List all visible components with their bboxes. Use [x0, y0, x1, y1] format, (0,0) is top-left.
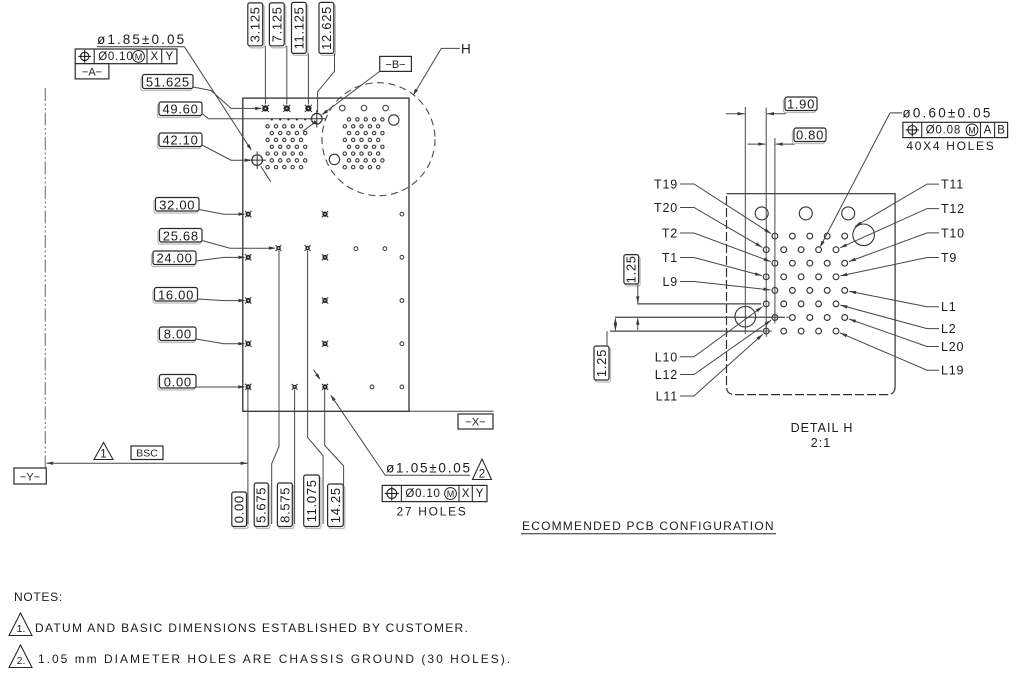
chassis ground hole left column y=300.5: [245, 297, 251, 303]
svg-text:27 HOLES: 27 HOLES: [397, 505, 468, 519]
detail hole grid (40 holes): [763, 233, 847, 334]
svg-text:Y: Y: [165, 51, 173, 63]
leader 8.575: [294, 390, 296, 525]
leader ø0.60: [821, 113, 890, 246]
detail large hole right: [853, 224, 875, 246]
right connector hole grid (40 small holes): [343, 118, 384, 169]
svg-text:T10: T10: [941, 226, 965, 240]
svg-text:DATUM AND BASIC DIMENSIONS: DATUM AND BASIC DIMENSIONS ESTABLISHED B…: [35, 621, 469, 635]
chassis ground hole 25.68 row left: [276, 245, 282, 251]
small hole right column y=343.7: [400, 342, 404, 346]
BSC dimension line: [47, 462, 248, 464]
svg-text:42.10: 42.10: [162, 133, 198, 148]
chassis ground hole mid column y=257.3: [322, 254, 328, 260]
dimension 1.90 line: [726, 113, 745, 115]
svg-text:2.: 2.: [17, 655, 26, 667]
leader 49.60: [202, 114, 311, 119]
svg-text:0.80: 0.80: [796, 128, 824, 143]
crosshair hole at 42.10: [248, 151, 266, 169]
svg-text:−Y−: −Y−: [20, 472, 40, 484]
dimension label 1.90: [784, 97, 818, 113]
svg-text:L20: L20: [941, 340, 964, 354]
datum B crosshair hole (12.625): [308, 110, 326, 128]
svg-text:T20: T20: [654, 201, 678, 215]
svg-text:DETAIL H: DETAIL H: [791, 421, 854, 435]
dimension 1.25 lower arrows: [614, 319, 616, 331]
datum label -Y-: [14, 468, 46, 484]
svg-text:ECOMMENDED PCB CONFIGURATION: ECOMMENDED PCB CONFIGURATION: [522, 519, 775, 533]
svg-text:Y: Y: [476, 488, 484, 500]
svg-text:3.125: 3.125: [248, 6, 263, 42]
svg-text:T19: T19: [654, 178, 678, 192]
note 1 flag triangle: [9, 613, 32, 636]
small hole pair row 24 right: [383, 247, 387, 251]
chassis ground hole top row 3 (11.125): [305, 105, 312, 112]
svg-text:−A−: −A−: [82, 67, 102, 79]
leader 0.00 bottom: [247, 390, 249, 525]
leader 7.125: [286, 46, 288, 105]
svg-text:1.25: 1.25: [624, 255, 639, 283]
svg-text:2: 2: [479, 469, 485, 481]
left connector hole grid (40 small holes): [266, 118, 307, 169]
flag triangle 1 (BSC): [94, 443, 113, 461]
leader 51.625: [193, 87, 261, 108]
leader 5.675: [272, 251, 279, 525]
chassis ground hole left column y=257.3: [245, 254, 251, 260]
leader 11.125: [307, 53, 309, 104]
feature control frame ø0.08 A B: [903, 122, 1008, 137]
extension line x=766.2 (0.80): [765, 108, 767, 336]
svg-text:H: H: [461, 42, 471, 57]
svg-text:25.68: 25.68: [163, 228, 199, 243]
leader 42.10: [202, 145, 250, 160]
PCB bottom edge extension to -X-: [409, 410, 494, 412]
leader T9: [840, 258, 939, 276]
svg-text:L12: L12: [655, 368, 678, 382]
svg-text:1.05 mm DIAMETER HOLES ARE: 1.05 mm DIAMETER HOLES ARE CHASSIS GROUN…: [38, 652, 512, 666]
dimension label 32.00: [154, 197, 199, 213]
svg-text:L1: L1: [941, 300, 957, 314]
svg-text:X: X: [150, 51, 158, 63]
svg-text:T11: T11: [941, 178, 964, 192]
right grid top hole 1: [340, 105, 346, 111]
leader 12.625: [318, 53, 335, 112]
detail H dashed circle: [322, 83, 435, 196]
detail H outline: [727, 194, 896, 387]
svg-text:A: A: [984, 124, 992, 136]
leader L9: [680, 282, 770, 290]
small hole right column y=386.9: [400, 385, 404, 389]
note 2 flag triangle: [9, 645, 32, 668]
detail crosshair hole (datum): [735, 306, 756, 327]
dimension label 51.625: [141, 75, 193, 91]
dimension label 5.675: [254, 483, 270, 529]
svg-text:Ø0.10: Ø0.10: [405, 488, 440, 500]
leader 14.25: [325, 390, 344, 525]
dimension label 7.125: [269, 3, 285, 48]
svg-text:B: B: [997, 124, 1005, 136]
leader T20: [680, 208, 762, 248]
svg-text:1.25: 1.25: [594, 349, 609, 377]
small hole right column y=300.5: [400, 299, 404, 303]
leader T19: [680, 184, 771, 234]
svg-text:T1: T1: [662, 251, 678, 265]
svg-text:L10: L10: [655, 350, 678, 364]
chassis ground hole mid column y=343.7: [322, 341, 328, 347]
svg-text:40X4 HOLES: 40X4 HOLES: [906, 139, 995, 153]
svg-text:0.00: 0.00: [164, 374, 192, 389]
svg-text:8.575: 8.575: [277, 487, 292, 523]
extension line y=331.1 (1.25): [610, 330, 762, 332]
svg-text:M: M: [968, 126, 976, 136]
leader L2: [840, 305, 939, 329]
dimension label 0.80: [793, 128, 827, 144]
leader T10: [849, 233, 939, 262]
svg-text:49.60: 49.60: [162, 102, 198, 117]
svg-text:L11: L11: [656, 390, 678, 404]
extension line x=774.9: [774, 138, 776, 321]
dimension label 12.625: [319, 2, 335, 55]
svg-text:11.125: 11.125: [291, 6, 306, 49]
svg-text:Ø0.10: Ø0.10: [98, 51, 133, 63]
chassis ground hole left column y=386.9: [245, 384, 251, 390]
leader ø1.85 to crosshair hole: [185, 47, 251, 150]
svg-text:Ø0.08: Ø0.08: [926, 124, 961, 136]
dimension label 3.125: [248, 3, 265, 48]
leader 11.075: [308, 251, 324, 525]
leader 16.00: [198, 299, 245, 301]
svg-text:ø1.05±0.05: ø1.05±0.05: [386, 461, 472, 476]
chassis ground hole 25.68 row right: [305, 245, 311, 251]
leader 8.00: [196, 339, 244, 344]
leader L12: [680, 320, 771, 374]
small hole bottom row x=372: [370, 385, 374, 389]
datum label -B-: [380, 56, 412, 71]
leader T11: [855, 184, 939, 226]
svg-text:ø0.60±0.05: ø0.60±0.05: [902, 106, 992, 121]
svg-text:L2: L2: [941, 322, 957, 336]
svg-text:14.25: 14.25: [328, 487, 343, 523]
datum label -A-: [75, 64, 109, 79]
svg-text:0.00: 0.00: [232, 495, 247, 523]
svg-text:ø1.85±0.05: ø1.85±0.05: [97, 32, 186, 47]
small hole right column y=214.1: [400, 212, 404, 216]
leader L10: [680, 307, 763, 357]
svg-text:5.675: 5.675: [254, 487, 269, 523]
extension line y=304 (1.25): [637, 303, 761, 305]
dimension label 1.25 (upper): [624, 255, 640, 286]
feature control frame ø0.10 X Y (top): [75, 49, 177, 64]
detail top hole 3: [842, 207, 855, 220]
leader L1: [849, 291, 939, 306]
leader T2: [680, 233, 771, 262]
datum centerline -Y-: [44, 88, 46, 468]
right grid top hole 2: [361, 105, 367, 111]
chassis ground hole top row 1 (3.125): [262, 105, 269, 112]
chassis ground hole left column y=343.7: [245, 341, 251, 347]
leader -B- to crosshair hole: [323, 71, 380, 114]
dimension label 8.575: [277, 483, 293, 529]
dimension label 11.075: [304, 475, 321, 529]
svg-text:NOTES:: NOTES:: [14, 590, 63, 604]
svg-text:T2: T2: [662, 227, 678, 241]
detail hole L12 cross: [775, 312, 790, 324]
svg-text:24.00: 24.00: [156, 251, 192, 266]
dimension 1.25 upper arrows: [637, 284, 639, 303]
dimension label 42.10: [158, 133, 203, 149]
svg-text:1: 1: [100, 449, 106, 461]
leader 24.00: [196, 257, 244, 261]
svg-text:L9: L9: [662, 275, 678, 289]
svg-text:T9: T9: [941, 251, 957, 265]
dimension label 16.00: [153, 287, 198, 303]
leader 25.68: [202, 241, 274, 249]
leader 32.00: [199, 210, 244, 215]
leader L11: [680, 334, 763, 396]
dimension label 8.00: [158, 327, 196, 343]
svg-text:11.075: 11.075: [304, 479, 319, 522]
H leader: [414, 48, 460, 93]
flag triangle 2 (ø1.05): [473, 459, 492, 481]
leader ø1.05 lower segment: [330, 395, 335, 402]
right grid large hole top-right: [389, 115, 399, 125]
svg-text:T12: T12: [941, 202, 965, 216]
chassis ground hole bottom row x=294.6: [292, 384, 298, 390]
leader 0.00 left: [196, 386, 244, 388]
dimension label 0.00 (bottom): [232, 492, 248, 529]
svg-text:2:1: 2:1: [811, 436, 831, 450]
leader T1: [680, 258, 762, 276]
small hole pair row 24 left: [354, 247, 358, 251]
small hole right column y=257.3: [400, 255, 404, 259]
leader ø1.05 upper segment: [314, 370, 320, 379]
extension line x=745.3 (1.90): [744, 107, 746, 334]
svg-text:16.00: 16.00: [158, 287, 194, 302]
leader L19: [840, 333, 939, 370]
svg-text:−B−: −B−: [385, 59, 405, 71]
leader 3.125: [264, 46, 266, 105]
svg-text:12.625: 12.625: [319, 6, 334, 50]
feature control frame ø0.10 X Y (bottom): [382, 485, 487, 501]
svg-text:1.: 1.: [17, 623, 26, 635]
chassis ground hole mid column y=214.1: [322, 211, 328, 217]
detail top hole 1: [755, 207, 768, 220]
right grid large hole bottom-left: [329, 154, 339, 164]
detail top hole 2: [799, 207, 812, 220]
dimension label 1.25 (lower): [594, 346, 611, 382]
dimension label 0.00 (left): [158, 374, 196, 390]
svg-text:51.625: 51.625: [146, 75, 190, 90]
dimension label 25.68: [158, 228, 202, 244]
svg-text:7.125: 7.125: [269, 6, 284, 42]
PCB board outline: [243, 98, 409, 411]
chassis ground hole mid column y=386.9: [322, 384, 328, 390]
dimension 0.80 line: [748, 143, 766, 145]
leader L20: [849, 319, 939, 347]
dimension label 11.125: [291, 2, 307, 55]
svg-text:M: M: [135, 52, 143, 62]
dimension label 24.00: [152, 251, 197, 267]
datum label -X-: [458, 414, 493, 429]
svg-text:8.00: 8.00: [164, 327, 192, 342]
chassis ground hole top row 2 (7.125): [283, 105, 290, 112]
svg-text:M: M: [447, 489, 455, 499]
leader T12: [840, 209, 939, 248]
dimension label 14.25: [328, 484, 345, 529]
svg-text:L19: L19: [941, 364, 964, 378]
leader 1.25 lower stem: [606, 331, 608, 346]
svg-text:BSC: BSC: [136, 448, 158, 460]
right grid top hole 3: [383, 105, 389, 111]
svg-text:−X−: −X−: [465, 417, 485, 429]
svg-text:1.90: 1.90: [787, 97, 815, 112]
label BSC: [131, 446, 163, 460]
dimension label 49.60: [158, 102, 203, 118]
chassis ground hole mid column y=300.5: [322, 297, 328, 303]
chassis ground hole left column y=214.1: [245, 211, 251, 217]
svg-text:X: X: [462, 488, 470, 500]
extension line y=317.5 (crosshair): [615, 316, 785, 318]
svg-text:32.00: 32.00: [159, 197, 195, 212]
detail hole L11 cross: [761, 326, 773, 338]
